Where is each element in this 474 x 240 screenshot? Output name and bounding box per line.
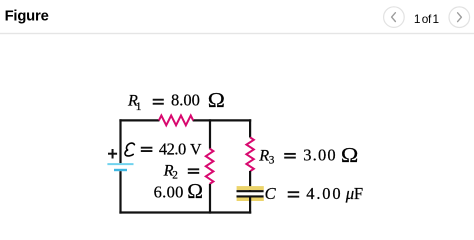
header divider line <box>0 33 474 34</box>
svg-text:Ω: Ω <box>187 179 203 203</box>
svg-text:μ: μ <box>345 184 354 203</box>
wire: top rail left segment <box>119 119 159 121</box>
svg-text:4.00: 4.00 <box>306 184 342 203</box>
wire: bottom rail <box>119 211 251 213</box>
svg-text:Figure: Figure <box>5 8 49 24</box>
wire: right side upper (top corner to R3) <box>249 119 251 137</box>
resistor R3 <box>246 137 253 171</box>
label R3 value: R3 = 3.00 ohm <box>258 143 358 166</box>
capacitor C <box>237 186 264 201</box>
wire: R3 to capacitor top plate <box>249 171 251 191</box>
svg-text:Ω: Ω <box>341 143 358 166</box>
wire: capacitor bottom plate to bottom rail <box>249 196 251 213</box>
label R1 value: R1 = 8.00 ohm <box>127 89 225 113</box>
nav next button <box>449 7 470 28</box>
svg-text:V: V <box>190 142 202 159</box>
wire: left side upper (top corner to battery) <box>119 119 121 163</box>
svg-text:F: F <box>354 184 363 203</box>
resistor R2 <box>206 149 214 184</box>
label C value: C = 4.00 uF <box>265 184 364 203</box>
wire: left side lower (battery to bottom corner) <box>119 171 121 213</box>
wire: top rail right segment <box>193 119 252 121</box>
svg-text:3.00: 3.00 <box>303 145 337 164</box>
nav previous button <box>384 7 405 28</box>
battery + polarity sign <box>108 149 117 159</box>
page title "Figure" <box>5 8 49 24</box>
wire: middle branch top (T-junction to R2) <box>209 119 211 148</box>
svg-text:C: C <box>265 184 277 203</box>
label R2 value line 2: 6.00 ohm <box>154 179 203 203</box>
svg-text:1: 1 <box>136 101 142 113</box>
label R2 value line 1: R2 = <box>163 162 200 182</box>
svg-text:R: R <box>258 146 269 164</box>
wire: middle branch bottom (R2 to bottom rail) <box>209 184 211 214</box>
label battery EMF: script-E = 42.0 V <box>125 140 202 159</box>
resistor R1 <box>159 116 193 126</box>
svg-text:8.00: 8.00 <box>171 91 200 110</box>
svg-text:2: 2 <box>172 170 178 182</box>
page indicator "1 of 1" <box>414 12 439 26</box>
svg-text:42.0: 42.0 <box>159 140 186 159</box>
svg-text:6.00: 6.00 <box>154 183 184 202</box>
svg-text:3: 3 <box>269 155 275 167</box>
svg-text:1 of 1: 1 of 1 <box>414 12 439 26</box>
svg-text:Ω: Ω <box>208 89 225 112</box>
battery EMF source plates <box>107 164 133 170</box>
